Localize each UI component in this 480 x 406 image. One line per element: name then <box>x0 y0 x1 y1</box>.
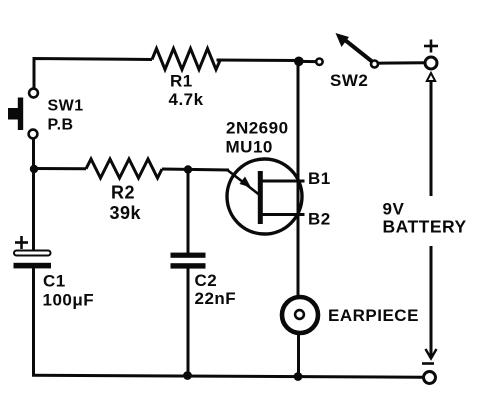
wire right rail upper <box>297 61 300 296</box>
wire left rail <box>32 139 35 252</box>
wire SW2 to battery <box>378 61 425 64</box>
switch SW1 terminal top <box>29 89 38 98</box>
switch SW1 plunger <box>8 98 23 131</box>
wire top rail left segment <box>34 59 152 88</box>
earpiece outer <box>282 297 318 333</box>
battery positive terminal <box>425 57 437 69</box>
svg-text:SW1: SW1 <box>48 98 84 115</box>
node junction top rail / SW2 <box>294 57 304 67</box>
battery positive sign <box>424 40 438 53</box>
node junction SW1/R2 <box>30 165 38 173</box>
svg-text:R1: R1 <box>170 72 193 91</box>
wire C2 top lead <box>187 170 190 254</box>
svg-text:B1: B1 <box>308 169 331 188</box>
wire R2 right lead to emitter <box>162 169 229 170</box>
svg-text:C2: C2 <box>195 271 218 290</box>
node junction earpiece / bottom rail <box>294 372 303 381</box>
transistor Q1 lead B2 <box>262 213 305 216</box>
battery arrow up <box>427 73 435 196</box>
svg-text:P.B: P.B <box>48 117 74 134</box>
resistor R2 <box>86 159 162 178</box>
transistor Q1 emitter <box>228 171 259 195</box>
svg-text:39k: 39k <box>110 203 142 223</box>
wire SW2 stub <box>299 60 316 63</box>
svg-text:C1: C1 <box>43 272 66 291</box>
capacitor C1 polarity plus <box>15 236 28 249</box>
switch SW2 arm <box>336 33 373 62</box>
switch SW2 pole <box>371 61 378 68</box>
transistor Q1 base bar <box>258 171 263 224</box>
wire bottom rail <box>32 375 423 377</box>
svg-text:EARPIECE: EARPIECE <box>328 306 419 325</box>
switch SW1 terminal bottom <box>29 130 38 139</box>
svg-text:SW2: SW2 <box>330 71 368 90</box>
svg-text:B2: B2 <box>308 210 331 229</box>
transistor Q1 circle <box>227 159 302 234</box>
node junction C2 / bottom rail <box>183 371 192 380</box>
capacitor C1 top plate <box>14 251 51 256</box>
switch SW2 contact left <box>316 59 322 65</box>
capacitor C2 bottom plate <box>171 263 206 268</box>
node junction R2/C2 <box>184 165 192 173</box>
battery negative sign <box>422 362 434 365</box>
wire top rail right segment <box>217 59 302 63</box>
svg-text:MU10: MU10 <box>226 138 273 157</box>
wire C2 bottom lead <box>187 269 190 377</box>
earpiece inner <box>295 310 304 319</box>
battery arrow down <box>426 246 437 359</box>
transistor Q1 lead B1 <box>262 180 305 183</box>
resistor R1 <box>152 49 220 70</box>
svg-text:R2: R2 <box>111 183 135 203</box>
wire right rail lower <box>297 335 300 376</box>
svg-text:BATTERY: BATTERY <box>383 217 467 237</box>
svg-text:100μF: 100μF <box>43 291 95 310</box>
svg-text:2N2690: 2N2690 <box>226 119 289 138</box>
capacitor C2 top plate <box>171 253 206 258</box>
wire R2 left lead <box>34 167 86 170</box>
battery negative terminal <box>424 372 436 384</box>
capacitor C1 bottom plate <box>14 263 52 269</box>
svg-text:4.7k: 4.7k <box>169 90 204 109</box>
svg-text:22nF: 22nF <box>195 289 237 308</box>
